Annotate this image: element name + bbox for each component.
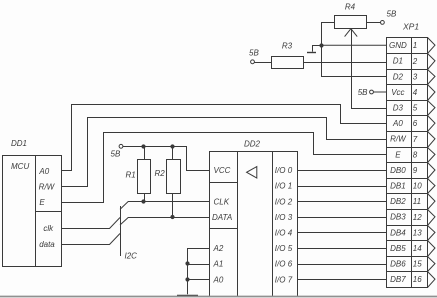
XP1 pin 14 (DB5)	[390, 241, 435, 257]
svg-text:DB6: DB6	[390, 260, 406, 269]
wire DD1 data to I2C bus	[61, 234, 120, 245]
bus I2C	[121, 206, 138, 261]
wire R4 wiper to XP1 pin 5 (D3)	[351, 108, 386, 110]
XP1 pin 12 (DB3)	[390, 210, 435, 226]
wire DD1 A0 to XP1 pin 6	[61, 105, 386, 171]
power terminal 5V (top right)	[381, 10, 397, 25]
wire DD2 A1 to ground	[185, 261, 209, 265]
svg-text:13: 13	[413, 228, 422, 237]
wire 5V rail to DD2 VCC	[123, 147, 209, 171]
wire I2C bus to DD2 CLK	[120, 202, 209, 210]
wire GND junction down to D2 line	[321, 45, 323, 76]
svg-text:DATA: DATA	[212, 213, 232, 222]
wire R2 bottom to DATA line	[170, 193, 174, 219]
DD2 buffer triangle symbol	[247, 167, 257, 178]
wire DD1 R/W to XP1 pin 7	[61, 118, 386, 187]
svg-text:E: E	[39, 198, 45, 207]
wire DD2 I/O 7 to XP1 pin 16 (DB7)	[297, 279, 386, 281]
svg-text:12: 12	[413, 213, 422, 222]
svg-text:R/W: R/W	[390, 135, 407, 144]
svg-text:9: 9	[413, 166, 418, 175]
svg-text:MCU: MCU	[11, 162, 29, 171]
wire 5V terminal to XP1 pin 4 (Vcc)	[373, 91, 386, 93]
wire GND net to XP1 pin 1	[321, 44, 387, 46]
svg-text:R/W: R/W	[39, 183, 56, 192]
svg-text:DD1: DD1	[11, 139, 27, 148]
svg-text:D2: D2	[393, 72, 404, 81]
svg-text:DB3: DB3	[390, 213, 406, 222]
svg-text:A0: A0	[213, 275, 224, 284]
wire DD2 I/O 6 to XP1 pin 15 (DB6)	[297, 264, 386, 266]
svg-text:A0: A0	[38, 167, 49, 176]
I2C expander DD2	[209, 140, 298, 297]
wire R4 left terminal	[321, 22, 334, 45]
svg-text:DB0: DB0	[390, 166, 406, 175]
svg-text:CLK: CLK	[214, 197, 230, 206]
svg-text:5В: 5В	[387, 10, 397, 19]
node R1 top junction	[141, 144, 145, 148]
resistor R2	[155, 160, 181, 194]
wire DD2 A2 to ground	[188, 249, 210, 295]
svg-text:R4: R4	[345, 3, 356, 12]
svg-text:4: 4	[413, 88, 418, 97]
XP1 pin 8 (E)	[395, 148, 435, 163]
svg-text:I/O 0: I/O 0	[275, 166, 293, 175]
XP1 pin 10 (DB1)	[390, 179, 435, 194]
svg-text:Vcc: Vcc	[391, 88, 404, 97]
svg-text:A1: A1	[213, 260, 224, 269]
XP1 pin 2 (D1)	[393, 54, 435, 70]
svg-text:DB2: DB2	[390, 197, 406, 206]
wire DD1 clk to I2C bus	[61, 218, 120, 229]
svg-text:D1: D1	[393, 57, 403, 66]
svg-text:R3: R3	[282, 42, 293, 51]
power terminal 5V (pull-up rail)	[111, 144, 123, 158]
svg-text:DB4: DB4	[390, 228, 406, 237]
svg-text:I/O 3: I/O 3	[275, 213, 293, 222]
svg-text:1: 1	[413, 41, 417, 50]
scan edge line (bottom)	[0, 296, 437, 298]
XP1 pin 7 (R/W)	[390, 132, 435, 148]
wire R1 bottom to CLK line	[141, 193, 145, 204]
XP1 pin 5 (D3)	[393, 101, 435, 116]
svg-text:5В: 5В	[111, 149, 121, 158]
power terminal 5V (R3 input)	[249, 49, 259, 64]
svg-text:5: 5	[413, 104, 418, 113]
wire DD2 I/O 4 to XP1 pin 13 (DB4)	[297, 232, 386, 234]
XP1 pin 9 (DB0)	[390, 163, 435, 179]
wire DD2 I/O 0 to XP1 pin 9 (DB0)	[297, 170, 386, 172]
svg-text:I/O 7: I/O 7	[275, 275, 293, 284]
wire R3 to XP1 pin 2 (D1)	[303, 62, 386, 64]
wire D2 net to XP1 pin 3	[321, 76, 386, 78]
wire DD2 I/O 2 to XP1 pin 11 (DB2)	[297, 201, 386, 203]
resistor R1	[126, 160, 151, 194]
XP1 pin 3 (D2)	[393, 70, 435, 85]
XP1 pin 11 (DB2)	[390, 194, 435, 210]
svg-text:clk: clk	[43, 224, 54, 233]
connector XP1 body	[386, 22, 428, 288]
wire R2 top stub	[172, 146, 174, 159]
wire DD2 I/O 3 to XP1 pin 12 (DB3)	[297, 217, 386, 219]
node GND junction	[319, 43, 323, 47]
svg-text:D3: D3	[393, 104, 404, 113]
wire R4 right terminal to 5V	[366, 22, 381, 24]
XP1 pin 1 (GND)	[389, 38, 435, 54]
XP1 pin 6 (A0)	[392, 116, 435, 132]
resistor R3	[272, 42, 304, 69]
svg-text:16: 16	[413, 275, 422, 284]
svg-text:DB1: DB1	[390, 182, 406, 191]
XP1 pin 16 (DB7)	[390, 272, 435, 288]
svg-text:7: 7	[413, 135, 418, 144]
svg-text:6: 6	[413, 119, 418, 128]
XP1 pin 15 (DB6)	[390, 257, 435, 272]
MCU DD1	[3, 139, 62, 267]
node R2 top junction	[170, 144, 174, 148]
svg-text:R1: R1	[126, 171, 136, 180]
svg-text:GND: GND	[389, 41, 407, 50]
ground symbol	[307, 46, 321, 53]
wire DD1 E to XP1 pin 8	[61, 133, 386, 203]
svg-text:5В: 5В	[249, 49, 259, 58]
svg-text:XP1: XP1	[402, 22, 419, 32]
svg-text:I2C: I2C	[125, 252, 138, 261]
svg-text:data: data	[39, 240, 55, 249]
wire DD2 A0 to ground	[185, 277, 209, 281]
svg-text:E: E	[395, 150, 401, 159]
svg-text:R2: R2	[155, 169, 166, 178]
svg-text:I/O 4: I/O 4	[275, 229, 293, 238]
svg-text:VCC: VCC	[214, 166, 231, 175]
svg-text:I/O 6: I/O 6	[275, 260, 293, 269]
XP1 pin 13 (DB4)	[390, 226, 435, 241]
power terminal 5V (Vcc pin)	[358, 88, 374, 97]
svg-text:2: 2	[412, 57, 418, 66]
svg-text:I/O 1: I/O 1	[275, 182, 292, 191]
svg-text:DB5: DB5	[390, 244, 406, 253]
svg-text:I/O 2: I/O 2	[275, 197, 293, 206]
svg-text:A0: A0	[392, 119, 403, 128]
svg-text:14: 14	[413, 244, 422, 253]
svg-text:5В: 5В	[358, 88, 368, 97]
wire 5V to R3	[254, 62, 271, 64]
svg-text:11: 11	[413, 197, 421, 206]
potentiometer R4 wiper arrow	[345, 29, 358, 108]
ground symbol (address pins)	[177, 295, 198, 297]
svg-text:10: 10	[413, 182, 422, 191]
wire DD2 I/O 5 to XP1 pin 14 (DB5)	[297, 248, 386, 250]
resistor R4	[335, 3, 367, 29]
svg-text:A2: A2	[213, 244, 224, 253]
svg-text:I/O 5: I/O 5	[275, 244, 293, 253]
svg-text:DD2: DD2	[244, 140, 261, 149]
svg-text:15: 15	[413, 260, 422, 269]
svg-text:8: 8	[413, 150, 418, 159]
wire DD2 I/O 1 to XP1 pin 10 (DB1)	[297, 186, 386, 188]
svg-text:3: 3	[413, 72, 418, 81]
wire I2C bus to DD2 DATA	[120, 218, 209, 226]
svg-text:DB7: DB7	[390, 275, 406, 284]
wire R1 top stub	[144, 146, 146, 159]
XP1 pin 4 (Vcc)	[391, 85, 435, 101]
